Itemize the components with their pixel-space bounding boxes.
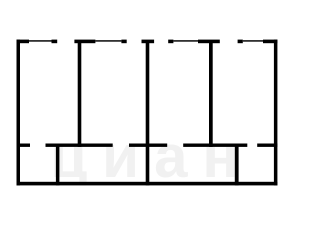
window 3 <box>173 40 198 41</box>
top wall left stub <box>17 40 30 44</box>
top wall right stub <box>263 40 277 44</box>
right wall <box>274 40 278 186</box>
top wall tick 4 <box>238 40 243 44</box>
interior wall B <box>46 144 113 147</box>
left wall <box>17 40 21 186</box>
top wall bar 2 <box>74 40 95 44</box>
center wall <box>146 41 150 186</box>
interior vertical stem 2 <box>209 41 213 147</box>
interior vertical V1 <box>56 144 60 186</box>
bottom wall <box>17 182 278 186</box>
interior vertical V2 <box>235 144 239 186</box>
window 4 <box>243 40 263 41</box>
interior wall D <box>183 144 247 147</box>
interior wall A <box>17 144 31 147</box>
top wall center bar <box>142 40 155 44</box>
top wall tick 3 <box>168 40 173 44</box>
top wall tick 1 <box>52 40 58 44</box>
interior wall E <box>257 144 277 147</box>
mask below bottom wall <box>0 186 303 227</box>
interior vertical stem 1 <box>78 41 82 147</box>
window 1 <box>29 40 52 41</box>
interior wall C <box>129 144 167 147</box>
top wall bar 4 <box>198 40 220 44</box>
window 2 <box>95 40 121 41</box>
top wall tick 2 <box>121 40 126 44</box>
